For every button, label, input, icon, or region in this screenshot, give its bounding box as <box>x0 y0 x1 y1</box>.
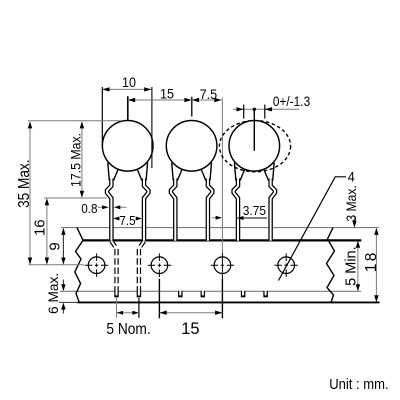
svg-text:18: 18 <box>363 250 380 272</box>
component 1 left lead with crimp <box>107 179 111 241</box>
hole 3 vertical centerline extended up and down (witness for 7.5 / 15) <box>221 98 223 253</box>
component 3 left lead with crimp <box>234 179 238 241</box>
component 1 right lead end stub <box>137 291 142 298</box>
svg-text:3 Max.: 3 Max. <box>344 185 360 221</box>
tape right break (zigzag) <box>327 228 335 303</box>
comp2 centerline witness <box>191 97 193 117</box>
carrier tape top edge <box>61 227 379 229</box>
component 2 left lead fillet <box>172 163 174 181</box>
dim 7.5 (half pitch to hole): dimension line with arrows <box>192 99 222 101</box>
svg-text:5 Min.: 5 Min. <box>344 246 360 286</box>
dim 3.75: arrows and underline <box>212 217 220 219</box>
carrier tape bottom edge <box>60 290 361 292</box>
component 1 left lead fillet <box>108 163 110 181</box>
dim 3 Max.: arrow <box>353 216 355 226</box>
dim 10 (disc diameter): witness lines <box>101 87 103 148</box>
sprocket hole 2 <box>148 257 172 274</box>
dim 15 bottom (hole pitch): dimension line with arrows <box>159 312 222 314</box>
sprocket hole 1 <box>85 253 109 277</box>
svg-text:0.8: 0.8 <box>81 202 97 217</box>
svg-text:7.5: 7.5 <box>119 214 135 229</box>
dim 9: dimension line with arrows <box>62 230 64 263</box>
component 2 left lead end stub <box>178 291 183 298</box>
svg-text:3.75: 3.75 <box>243 204 266 219</box>
svg-text:4: 4 <box>348 169 355 185</box>
component 1 left lead end stub <box>114 291 119 298</box>
component 3 right lead end stub <box>263 291 268 298</box>
dim 35 Max.: dimension line with arrows <box>29 124 31 263</box>
dim 18: dimension line with arrows <box>375 230 377 300</box>
svg-text:17.5 Max.: 17.5 Max. <box>68 133 84 187</box>
svg-text:0+/-1.3: 0+/-1.3 <box>273 93 310 109</box>
component 3 left lead fillet <box>234 163 236 181</box>
dim 0.8 (lead diameter): arrows <box>98 206 104 208</box>
svg-text:35 Max.: 35 Max. <box>16 159 33 207</box>
component 1 left lead hidden in tape (dashed) <box>111 241 116 291</box>
svg-text:Unit : mm.: Unit : mm. <box>329 375 388 392</box>
component 2 right lead fillet <box>210 163 212 181</box>
component 1 right lead with crimp <box>144 179 148 241</box>
svg-text:6 Max.: 6 Max. <box>45 273 61 314</box>
dim 7.5 (lead spread): label with arrows <box>113 217 119 221</box>
component 2 left lead with crimp <box>171 179 175 241</box>
extension of lead cut line to left <box>59 301 78 303</box>
component 3 disc body <box>229 121 280 172</box>
tape lower edge / lead cut line (thick) <box>78 301 380 303</box>
component 3 right lead with crimp <box>271 179 275 241</box>
dim 5 Min.: dimension line with arrows <box>357 243 359 289</box>
comp1 centerline witness <box>127 96 129 120</box>
sprocket hole 4 <box>274 253 298 277</box>
hole 2 vertical centerline extended down (witness for 15) <box>158 254 160 279</box>
component 3 tilt axis centerline <box>253 110 255 151</box>
component 3 left lead end stub <box>241 291 246 298</box>
dim 16: dimension line with arrows <box>46 201 48 263</box>
dim 5 Nom.: dimension line with arrows <box>117 312 139 314</box>
svg-text:15: 15 <box>181 320 199 338</box>
extension line at crimp bottom (seating) <box>44 197 107 199</box>
svg-text:16: 16 <box>32 219 49 236</box>
dim 0+/-1.3 (tilt tolerance): line, ticks, dot, arrows <box>233 108 299 110</box>
component 2 right lead with crimp <box>208 179 212 241</box>
svg-text:15: 15 <box>160 86 174 102</box>
component 1 right lead fillet <box>146 163 148 181</box>
dim 10: dimension line with arrows <box>102 88 151 90</box>
svg-text:7.5: 7.5 <box>200 86 218 102</box>
tape left break (zigzag) <box>75 228 83 303</box>
leader for note 4 (sprocket hole) <box>279 177 347 281</box>
svg-text:10: 10 <box>122 74 136 90</box>
dim 5 Nom.: witness lines <box>116 298 118 318</box>
hole 1 centerline extension to left dims <box>29 264 85 266</box>
component 3 right lead fillet <box>273 163 275 181</box>
dim 17.5 Max.: dimension line with arrows <box>81 124 83 196</box>
component 1 disc body <box>102 121 153 172</box>
svg-text:9: 9 <box>46 242 63 250</box>
component 2 disc body <box>166 121 217 172</box>
svg-text:5 Nom.: 5 Nom. <box>106 320 150 338</box>
extension line at component top <box>28 120 121 122</box>
sprocket hole 3 <box>211 257 235 274</box>
component 1 right lead hidden in tape (dashed) <box>139 241 144 291</box>
dim 6 Max.: arrows outside pointing in <box>62 280 64 290</box>
component 2 right lead end stub <box>201 291 206 298</box>
adhesive tape top edge (thick) <box>83 239 361 241</box>
dim 15 (component pitch): dimension line with arrows <box>128 99 192 101</box>
component 3 tilt envelope (dashed ellipse) <box>219 121 290 172</box>
